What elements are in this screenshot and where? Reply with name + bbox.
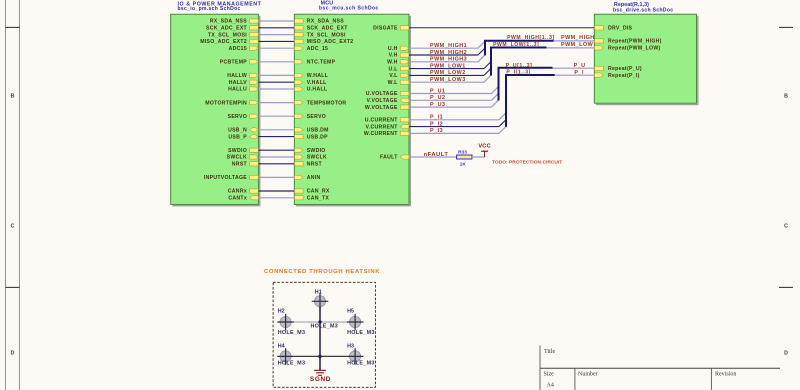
wire CANTx bbox=[258, 197, 294, 199]
svg-text:H5: H5 bbox=[347, 309, 354, 315]
svg-text:SWDIO: SWDIO bbox=[228, 148, 247, 154]
wire PCBTEMP bbox=[258, 61, 294, 63]
sheet entry CAN_TX on MCU sheet bbox=[295, 196, 330, 202]
svg-text:P_I3: P_I3 bbox=[430, 128, 443, 134]
svg-text:P_U: P_U bbox=[574, 63, 586, 69]
svg-text:Repeat(P_U): Repeat(P_U) bbox=[608, 66, 642, 72]
svg-text:W.L: W.L bbox=[388, 80, 398, 86]
sheet entry NRST on MCU sheet bbox=[295, 162, 323, 168]
sheet entry Repeat(PWM_LOW) on drive sheet bbox=[595, 46, 661, 52]
sheet entry V.H on MCU sheet right bbox=[389, 53, 409, 59]
svg-text:ADC15: ADC15 bbox=[229, 46, 247, 52]
sheet entry U.CURRENT on MCU sheet right bbox=[365, 118, 409, 124]
svg-text:R33: R33 bbox=[458, 149, 467, 155]
svg-text:PWM_LOW1: PWM_LOW1 bbox=[430, 63, 466, 69]
sheet entry INPUTVOLTAGE on IO sheet bbox=[204, 175, 258, 181]
sheet entry HALLU on IO sheet bbox=[228, 87, 258, 93]
wire nFAULT from FAULT pin bbox=[409, 156, 457, 158]
sheet symbol U_MCU MCU bbox=[294, 14, 411, 206]
svg-text:ADC_15: ADC_15 bbox=[307, 46, 329, 52]
svg-text:CANTx: CANTx bbox=[228, 196, 247, 202]
bus P_U[1..3] bbox=[498, 68, 595, 101]
ground SGND symbol bbox=[314, 370, 326, 375]
sheet entry SWDIO on IO sheet bbox=[228, 148, 258, 154]
wire P_I1 from U.CURRENT bbox=[409, 113, 506, 121]
sheet entry NTC.TEMP on MCU sheet bbox=[295, 60, 336, 66]
svg-text:nFAULT: nFAULT bbox=[424, 152, 449, 158]
svg-text:USB_N: USB_N bbox=[228, 128, 247, 134]
svg-text:USB.DP: USB.DP bbox=[307, 134, 328, 140]
sheet symbol U_IO IO &amp; POWER MANAGEMENT bbox=[171, 14, 261, 206]
svg-text:A4: A4 bbox=[547, 382, 554, 388]
sheet entry W.H on MCU sheet right bbox=[387, 60, 409, 66]
sheet entry U.H on MCU sheet right bbox=[388, 46, 409, 52]
svg-text:PWM_LOW: PWM_LOW bbox=[561, 42, 594, 48]
svg-text:SERVO: SERVO bbox=[307, 114, 326, 120]
sheet entry U.L on MCU sheet right bbox=[389, 66, 409, 72]
svg-text:HOLE_M3: HOLE_M3 bbox=[278, 330, 306, 336]
sheet entry MOTORTEMPIN on IO sheet bbox=[205, 100, 258, 106]
svg-text:NTC.TEMP: NTC.TEMP bbox=[307, 60, 336, 66]
svg-text:NRST: NRST bbox=[232, 162, 248, 168]
svg-text:W.CURRENT: W.CURRENT bbox=[364, 131, 398, 137]
wire PWM_HIGH1 from U.H bbox=[409, 41, 485, 49]
wire P_I2 from V.CURRENT bbox=[409, 120, 506, 128]
svg-text:bsc_mcu.sch SchDoc: bsc_mcu.sch SchDoc bbox=[319, 5, 379, 11]
svg-text:PWM_HIGH3: PWM_HIGH3 bbox=[430, 57, 467, 63]
wire SWDIO bbox=[258, 149, 294, 151]
svg-text:USB_P: USB_P bbox=[228, 134, 247, 140]
svg-text:V.VOLTAGE: V.VOLTAGE bbox=[367, 98, 398, 104]
svg-text:HOLE_M3: HOLE_M3 bbox=[347, 360, 375, 366]
wire MISO_ADC_EXT2 bbox=[258, 40, 294, 42]
sheet entry MISO_ADC_EXT2 on MCU sheet bbox=[295, 39, 354, 45]
svg-text:Revision: Revision bbox=[715, 371, 736, 377]
wire ADC15 bbox=[258, 47, 294, 49]
sheet entry ADC_15 on MCU sheet bbox=[295, 46, 329, 52]
sheet entry SWCLK on IO sheet bbox=[227, 155, 259, 161]
svg-text:SCK_ADC_EXT: SCK_ADC_EXT bbox=[206, 26, 248, 32]
wire RX_SDA_NSS bbox=[258, 20, 294, 22]
wire SCK_ADC_EXT bbox=[258, 27, 294, 29]
svg-text:HOLE_M3: HOLE_M3 bbox=[278, 360, 306, 366]
wire H4 to center bbox=[294, 355, 320, 357]
svg-text:TX_SCL_MOSI: TX_SCL_MOSI bbox=[307, 32, 346, 38]
svg-text:H4: H4 bbox=[278, 344, 285, 350]
sheet entry USB_P on IO sheet bbox=[228, 134, 258, 140]
svg-text:V.CURRENT: V.CURRENT bbox=[365, 124, 398, 130]
wire USB_P bbox=[258, 136, 294, 138]
svg-text:SERVO: SERVO bbox=[228, 114, 247, 120]
svg-text:HOLE_M3: HOLE_M3 bbox=[347, 330, 375, 336]
wire INPUTVOLTAGE bbox=[258, 176, 294, 178]
junction lower bbox=[318, 355, 321, 358]
bus PWM_HIGH[1..3] bbox=[484, 41, 594, 56]
svg-text:CANRx: CANRx bbox=[228, 189, 247, 195]
svg-text:HALLU: HALLU bbox=[228, 87, 247, 93]
svg-text:D: D bbox=[784, 351, 788, 357]
sheet entry HALLW on IO sheet bbox=[227, 73, 258, 79]
svg-text:V.H: V.H bbox=[389, 53, 398, 59]
sheet entry Repeat(PWM_HIGH) on drive sheet bbox=[595, 39, 662, 45]
sheet entry CANTx on IO sheet bbox=[228, 196, 258, 202]
svg-text:D: D bbox=[11, 351, 15, 357]
sheet entry SCK_ADC_EXT on IO sheet bbox=[206, 26, 258, 32]
wire P_U3 from W.VOLTAGE bbox=[409, 100, 499, 108]
svg-text:PWM_LOW2: PWM_LOW2 bbox=[430, 70, 466, 76]
svg-text:C: C bbox=[11, 223, 15, 229]
wire H5 to center bbox=[320, 321, 347, 323]
wire HALLW bbox=[258, 74, 294, 76]
svg-text:Repeat(PWM_HIGH): Repeat(PWM_HIGH) bbox=[608, 39, 662, 45]
svg-text:W.VOLTAGE: W.VOLTAGE bbox=[365, 105, 398, 111]
svg-text:Size: Size bbox=[544, 371, 555, 377]
svg-text:RX_SDA_NSS: RX_SDA_NSS bbox=[307, 19, 345, 25]
svg-text:P_I: P_I bbox=[574, 70, 584, 76]
sheet entry PCBTEMP on IO sheet bbox=[220, 60, 258, 66]
sheet entry SERVO on MCU sheet bbox=[295, 114, 327, 120]
svg-text:B: B bbox=[11, 93, 15, 99]
svg-text:Repeat(PWM_LOW): Repeat(PWM_LOW) bbox=[608, 46, 660, 52]
svg-text:H1: H1 bbox=[315, 289, 322, 295]
dashed outline heatsink group bbox=[273, 282, 375, 387]
bus P_I[1..3] bbox=[505, 75, 594, 127]
sheet entry U.HALL on MCU sheet bbox=[295, 87, 328, 93]
svg-text:SWCLK: SWCLK bbox=[307, 155, 327, 161]
svg-text:HALLW: HALLW bbox=[227, 73, 247, 79]
sheet entry V.L on MCU sheet right bbox=[389, 73, 409, 79]
svg-text:DRV_DIS: DRV_DIS bbox=[608, 26, 633, 32]
svg-text:C: C bbox=[784, 223, 788, 229]
svg-text:PWM_LOW[1..3]: PWM_LOW[1..3] bbox=[493, 42, 539, 48]
svg-text:MISO_ADC_EXT2: MISO_ADC_EXT2 bbox=[307, 39, 354, 45]
sheet frame right ticks bbox=[779, 27, 793, 287]
sheet entry Repeat(P_I) on drive sheet bbox=[595, 73, 640, 79]
wire NRST bbox=[258, 163, 294, 165]
svg-text:P_U1: P_U1 bbox=[430, 88, 446, 94]
bus PWM_LOW[1..3] bbox=[490, 48, 594, 76]
mounting hole H5 bbox=[347, 309, 364, 331]
sheet entry W.CURRENT on MCU sheet right bbox=[364, 131, 409, 137]
wire PWM_LOW3 from W.L bbox=[409, 75, 491, 83]
svg-text:SWDIO: SWDIO bbox=[307, 148, 326, 154]
sheet entry V.HALL on MCU sheet bbox=[295, 80, 327, 86]
power port VCC bbox=[478, 143, 491, 157]
svg-text:USB.DM: USB.DM bbox=[307, 128, 329, 134]
svg-text:U.CURRENT: U.CURRENT bbox=[365, 118, 399, 124]
svg-text:SWCLK: SWCLK bbox=[227, 155, 247, 161]
wire PWM_LOW1 from U.L bbox=[409, 62, 491, 70]
svg-text:P_I2: P_I2 bbox=[430, 121, 443, 127]
svg-text:Number: Number bbox=[578, 371, 598, 377]
sheet entry ANIN on MCU sheet bbox=[295, 175, 321, 181]
svg-text:bsc_io_pm.sch SchDoc: bsc_io_pm.sch SchDoc bbox=[178, 6, 241, 12]
sheet entry V.CURRENT on MCU sheet right bbox=[365, 124, 408, 130]
svg-text:P_I1: P_I1 bbox=[430, 115, 443, 121]
sheet entry SWDIO on MCU sheet bbox=[295, 148, 326, 154]
svg-text:PWM_HIGH[1..3]: PWM_HIGH[1..3] bbox=[507, 35, 555, 41]
svg-text:U.H: U.H bbox=[388, 46, 398, 52]
wire SERVO bbox=[258, 115, 294, 117]
svg-text:ANIN: ANIN bbox=[307, 175, 321, 181]
svg-text:B: B bbox=[784, 93, 788, 99]
svg-text:CONNECTED THROUGH HEATSINK: CONNECTED THROUGH HEATSINK bbox=[264, 269, 380, 275]
sheet entry DISGATE on MCU sheet right bbox=[373, 26, 409, 32]
sheet entry USB.DM on MCU sheet bbox=[295, 128, 329, 134]
sheet entry HALLV on IO sheet bbox=[229, 80, 258, 86]
svg-text:SGND: SGND bbox=[310, 376, 331, 383]
wire H1 to ground vertical bbox=[319, 307, 321, 370]
sheet entry ADC15 on IO sheet bbox=[229, 46, 259, 52]
svg-text:CAN_RX: CAN_RX bbox=[307, 189, 330, 195]
svg-text:Repeat(P_I): Repeat(P_I) bbox=[608, 73, 640, 79]
wire HALLU bbox=[258, 88, 294, 90]
wire PWM_HIGH2 from V.H bbox=[409, 48, 485, 56]
wire DISGATE to DRV_DIS bbox=[409, 27, 594, 29]
svg-text:bsc_drive.sch SchDoc: bsc_drive.sch SchDoc bbox=[613, 7, 673, 13]
svg-text:HALLV: HALLV bbox=[229, 80, 248, 86]
svg-text:PWM_HIGH: PWM_HIGH bbox=[561, 35, 595, 41]
svg-text:U.VOLTAGE: U.VOLTAGE bbox=[366, 91, 398, 97]
wire H3 to center bbox=[320, 355, 347, 357]
svg-text:MISO_ADC_EXT2: MISO_ADC_EXT2 bbox=[200, 39, 247, 45]
svg-text:TODO: PROTECTION CIRCUIT: TODO: PROTECTION CIRCUIT bbox=[492, 160, 562, 166]
wire USB_N bbox=[258, 129, 294, 131]
wire SWCLK bbox=[258, 156, 294, 158]
sheet entry W.VOLTAGE on MCU sheet right bbox=[365, 105, 409, 111]
sheet entry SCK_ADC_EXT on MCU sheet bbox=[295, 26, 349, 32]
sheet entry CAN_RX on MCU sheet bbox=[295, 189, 330, 195]
svg-text:H3: H3 bbox=[347, 344, 354, 350]
svg-text:V.L: V.L bbox=[389, 73, 397, 79]
sheet entry TX_SCL_MOSI on MCU sheet bbox=[295, 32, 346, 38]
svg-text:U.HALL: U.HALL bbox=[307, 87, 328, 93]
mounting hole H1 bbox=[312, 289, 329, 309]
svg-text:P_U3: P_U3 bbox=[430, 102, 446, 108]
sheet entry SERVO on IO sheet bbox=[228, 114, 259, 120]
mounting hole H2 bbox=[277, 309, 294, 331]
wire HALLV bbox=[258, 81, 294, 83]
svg-text:PWM_HIGH2: PWM_HIGH2 bbox=[430, 50, 467, 56]
sheet entry V.VOLTAGE on MCU sheet right bbox=[367, 98, 409, 104]
sheet symbol U_DRV Repeat(R,1,3) bbox=[594, 14, 698, 105]
wire MOTORTEMPIN bbox=[258, 102, 294, 104]
svg-text:TEMPSMOTOR: TEMPSMOTOR bbox=[307, 100, 347, 106]
svg-text:NRST: NRST bbox=[307, 162, 323, 168]
wire CANRx bbox=[258, 190, 294, 192]
title block outline bbox=[540, 346, 780, 390]
sheet entry RX_SDA_NSS on IO sheet bbox=[210, 19, 258, 25]
resistor R33 1K bbox=[457, 149, 472, 167]
svg-text:H2: H2 bbox=[278, 309, 285, 315]
svg-text:P_I[1..3]: P_I[1..3] bbox=[506, 69, 530, 75]
wire P_U1 from U.VOLTAGE bbox=[409, 87, 499, 95]
svg-text:HOLE_M3: HOLE_M3 bbox=[311, 324, 339, 330]
svg-text:P_U2: P_U2 bbox=[430, 95, 446, 101]
svg-text:Title: Title bbox=[544, 349, 555, 355]
svg-text:SCK_ADC_EXT: SCK_ADC_EXT bbox=[307, 26, 349, 32]
wire H2 to center bbox=[294, 321, 320, 323]
svg-text:1K: 1K bbox=[460, 162, 467, 168]
wire PWM_LOW2 from V.L bbox=[409, 68, 491, 76]
sheet entry FAULT on MCU sheet right bbox=[380, 155, 409, 161]
sheet entry U.VOLTAGE on MCU sheet right bbox=[366, 91, 409, 97]
wire TX_SCL_MOSI bbox=[258, 34, 294, 36]
svg-text:FAULT: FAULT bbox=[380, 155, 398, 161]
wire R33 to VCC bbox=[472, 156, 485, 158]
svg-text:MOTORTEMPIN: MOTORTEMPIN bbox=[205, 100, 247, 106]
wire P_I3 from W.CURRENT bbox=[409, 126, 506, 134]
wire P_U2 from V.VOLTAGE bbox=[409, 93, 499, 101]
sheet entry TEMPSMOTOR on MCU sheet bbox=[295, 100, 347, 106]
sheet entry USB_N on IO sheet bbox=[228, 128, 258, 134]
wire PWM_HIGH3 from W.H bbox=[409, 55, 485, 63]
svg-text:TX_SCL_MOSI: TX_SCL_MOSI bbox=[208, 32, 247, 38]
sheet entry W.HALL on MCU sheet bbox=[295, 73, 329, 79]
sheet entry MISO_ADC_EXT2 on IO sheet bbox=[200, 39, 258, 45]
svg-text:W.HALL: W.HALL bbox=[307, 73, 329, 79]
junction middle bbox=[318, 320, 321, 323]
svg-text:W.H: W.H bbox=[387, 60, 398, 66]
svg-text:V.HALL: V.HALL bbox=[307, 80, 327, 86]
sheet entry NRST on IO sheet bbox=[232, 162, 258, 168]
sheet entry W.L on MCU sheet right bbox=[388, 80, 409, 86]
svg-text:CAN_TX: CAN_TX bbox=[307, 196, 330, 202]
sheet entry RX_SDA_NSS on MCU sheet bbox=[295, 19, 345, 25]
sheet entry SWCLK on MCU sheet bbox=[295, 155, 328, 161]
svg-text:INPUTVOLTAGE: INPUTVOLTAGE bbox=[204, 175, 247, 181]
svg-text:DISGATE: DISGATE bbox=[373, 26, 398, 32]
svg-text:RX_SDA_NSS: RX_SDA_NSS bbox=[210, 19, 248, 25]
mounting hole H4 bbox=[277, 344, 294, 365]
sheet entry CANRx on IO sheet bbox=[228, 189, 258, 195]
sheet entry USB.DP on MCU sheet bbox=[295, 134, 329, 140]
svg-text:VCC: VCC bbox=[478, 143, 491, 149]
svg-text:U.L: U.L bbox=[389, 66, 398, 72]
sheet entry TX_SCL_MOSI on IO sheet bbox=[208, 32, 258, 38]
svg-text:PCBTEMP: PCBTEMP bbox=[220, 60, 248, 66]
mounting hole H3 bbox=[347, 344, 364, 365]
sheet entry Repeat(P_U) on drive sheet bbox=[595, 66, 642, 72]
sheet entry DRV_DIS on drive sheet bbox=[595, 26, 633, 32]
svg-text:PWM_LOW3: PWM_LOW3 bbox=[430, 77, 466, 83]
svg-text:P_U[1..3]: P_U[1..3] bbox=[506, 63, 533, 69]
sheet frame left border bbox=[6, 0, 20, 390]
svg-text:PWM_HIGH1: PWM_HIGH1 bbox=[430, 43, 467, 49]
